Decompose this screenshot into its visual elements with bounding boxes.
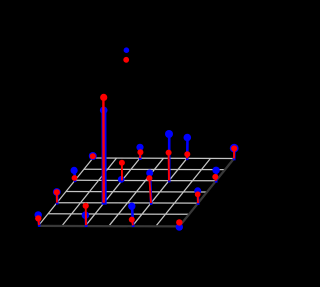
blue stem node 0,4 bbox=[73, 170, 76, 182]
blue dot node 6,6 bbox=[230, 144, 239, 153]
blue dot node 6,2 bbox=[194, 187, 201, 194]
red stem node 0,2 bbox=[56, 192, 58, 203]
mesh v-line i=2 bbox=[86, 158, 140, 225]
red dot node 6,0 bbox=[176, 219, 182, 225]
floating blue dot (legend) bbox=[124, 47, 130, 53]
blue stem node 6,4 bbox=[215, 170, 218, 182]
blue stem node 2,0 bbox=[84, 215, 87, 227]
blue dot node 4,2 bbox=[146, 170, 153, 177]
red stem node 2,6 bbox=[139, 152, 141, 158]
mesh u-line j=6 bbox=[93, 157, 234, 160]
blue stem node 4,0 bbox=[132, 206, 133, 227]
mesh u-line j=2 bbox=[57, 202, 198, 204]
red dot node 2,4 bbox=[119, 160, 125, 166]
red stem node 6,6 bbox=[233, 149, 235, 159]
mesh u-line j=4 bbox=[75, 179, 216, 182]
red dot node 4,0 bbox=[129, 217, 135, 223]
mesh u-line j=1 bbox=[48, 213, 189, 216]
red dot node 0,2 bbox=[54, 189, 60, 195]
blue dot node 2,4 bbox=[118, 176, 125, 183]
mesh v-line i=5 bbox=[157, 158, 211, 225]
blue dot node 6,0 bbox=[176, 223, 183, 230]
blue dot node 2,6 bbox=[136, 144, 143, 151]
red dot node 0,4 bbox=[72, 175, 78, 181]
blue stem node 4,2 bbox=[150, 173, 151, 205]
blue stem node 4,4 bbox=[168, 134, 171, 182]
red stem node 4,6 bbox=[186, 154, 188, 158]
mesh u-line j=3 bbox=[66, 191, 207, 194]
red stem node 6,0 bbox=[178, 222, 181, 225]
red dot node 6,4 bbox=[212, 174, 218, 180]
blue dot node 4,4 bbox=[165, 130, 173, 138]
blue stem node 6,6 bbox=[233, 148, 236, 160]
floating red dot (legend) bbox=[123, 57, 129, 63]
red dot node 6,2 bbox=[195, 191, 201, 197]
red stem node 4,2 bbox=[149, 178, 151, 203]
mesh v-line i=3 bbox=[110, 158, 164, 225]
blue stem node 4,6 bbox=[186, 138, 189, 161]
blue dot node 2,0 bbox=[82, 211, 90, 219]
red stem node 4,0 bbox=[132, 220, 133, 226]
red dot node 0,0 bbox=[35, 215, 41, 221]
red stem node 0,0 bbox=[37, 218, 40, 225]
mesh v-line i=1 bbox=[63, 158, 117, 225]
red dot node 4,4 bbox=[166, 150, 172, 156]
blue dot node 2,2 bbox=[100, 107, 108, 115]
red dot node 2,6 bbox=[137, 149, 143, 155]
blue dot node 0,6 bbox=[89, 152, 97, 160]
blue stem node 0,0 bbox=[37, 215, 40, 227]
red stem node 2,4 bbox=[121, 163, 123, 181]
blue stem node 0,2 bbox=[56, 192, 59, 205]
mesh u-line j=5 bbox=[84, 168, 225, 170]
red stem node 2,2 bbox=[102, 97, 105, 202]
blue dot node 0,2 bbox=[53, 188, 61, 196]
blue dot node 4,6 bbox=[184, 134, 192, 142]
dark front edge bbox=[39, 225, 180, 228]
blue stem node 6,2 bbox=[197, 191, 200, 205]
blue dot node 0,0 bbox=[35, 211, 42, 218]
red dot node 2,0 bbox=[83, 203, 89, 209]
red dot node 0,6 bbox=[90, 153, 96, 159]
blue stem node 6,0 bbox=[178, 226, 181, 229]
mesh v-line i=0 bbox=[39, 158, 93, 225]
red stem node 2,0 bbox=[85, 206, 87, 225]
blue dot node 6,4 bbox=[212, 167, 219, 174]
blue stem node 0,6 bbox=[92, 156, 95, 160]
blue stem node 2,6 bbox=[139, 147, 142, 160]
dark right edge bbox=[180, 159, 234, 226]
blue stem node 2,4 bbox=[120, 179, 123, 182]
red stem node 4,4 bbox=[168, 153, 170, 181]
red stem node 0,4 bbox=[74, 178, 77, 180]
mesh v-line i=4 bbox=[133, 158, 187, 225]
red dot node 4,6 bbox=[184, 151, 190, 157]
blue dot node 0,4 bbox=[71, 167, 78, 174]
blue stem node 2,2 bbox=[101, 110, 106, 204]
red dot node 6,6 bbox=[231, 145, 237, 151]
red dot node 4,2 bbox=[146, 175, 152, 181]
red stem node 6,4 bbox=[214, 177, 217, 181]
red stem node 0,6 bbox=[92, 156, 94, 158]
red dot node 2,2 bbox=[100, 94, 107, 101]
red stem node 6,2 bbox=[197, 194, 199, 203]
blue dot node 4,0 bbox=[128, 203, 135, 210]
